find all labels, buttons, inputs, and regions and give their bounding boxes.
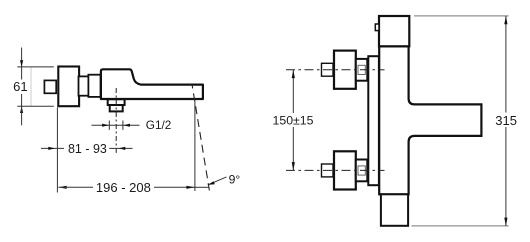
dimension 315 extension lines (gray) xyxy=(412,16,509,226)
dimension 150+-15 line and arrows xyxy=(292,70,295,171)
left view: spout outlet axis 9 degrees (dashed) xyxy=(192,86,209,191)
dimension 61 line and arrows xyxy=(20,48,23,126)
right view: wall union strip xyxy=(368,56,379,185)
right view: cold inlet centerline (dashed) xyxy=(286,169,385,171)
G1/2 label xyxy=(146,118,172,132)
right view: cold pipe stub xyxy=(322,164,334,177)
right view: cold union nut xyxy=(334,151,356,189)
left view: mixer body and spout xyxy=(101,69,203,99)
svg-text:315: 315 xyxy=(495,113,517,128)
left view: hidden wall line xyxy=(30,67,32,106)
right view: hot union nut xyxy=(334,51,356,89)
left view: in-wall connector knob xyxy=(44,80,56,93)
right view: cold escutcheon cylinder xyxy=(356,160,368,182)
svg-text:G1/2: G1/2 xyxy=(146,118,172,132)
right view: hot escutcheon cylinder xyxy=(356,59,368,81)
right view: head tab xyxy=(375,24,379,31)
9 degree leader arrow xyxy=(208,177,227,185)
left view: neck ring A xyxy=(79,76,89,95)
right view: hot hex nut face xyxy=(358,65,365,74)
dimension 315 line and arrows xyxy=(504,16,507,226)
dimension 150+-15 text xyxy=(273,114,314,128)
right view: body column with spout bar xyxy=(379,46,481,194)
dimension 81-93 line and arrows xyxy=(41,147,133,150)
dimension 196-208 text xyxy=(96,180,151,195)
dimension 196-208 line and arrows xyxy=(58,186,208,189)
left view: outlet centerline (dashed) xyxy=(115,88,117,153)
dimension 315 text xyxy=(495,113,517,128)
left view: neck ring B xyxy=(88,75,100,97)
right view: hot inlet centerline (dashed) xyxy=(286,69,385,71)
left view: wall flange xyxy=(58,67,79,107)
extension line from wall face xyxy=(56,108,58,193)
svg-text:9°: 9° xyxy=(229,173,241,187)
dimension 81-93 text xyxy=(68,142,107,156)
extension line from outlet axis xyxy=(194,101,196,192)
right view: thermostat head xyxy=(379,16,409,46)
G1/2 thread ticks xyxy=(109,121,123,130)
left view: aerator upper step xyxy=(108,99,125,105)
9 degree text xyxy=(229,173,241,187)
right view: body internal line xyxy=(379,193,408,195)
svg-text:61: 61 xyxy=(13,79,27,94)
dimension 61 text xyxy=(13,79,27,94)
right view: cold hex nut face xyxy=(358,166,365,175)
svg-text:196 - 208: 196 - 208 xyxy=(96,180,151,195)
left view: aerator lower step xyxy=(110,105,123,111)
right view: bottom block xyxy=(381,194,408,226)
svg-text:81 - 93: 81 - 93 xyxy=(68,142,107,156)
G1/2 leader lines and arrows xyxy=(92,124,140,127)
dimension 61 extension lines xyxy=(17,67,54,106)
right view: hot pipe stub xyxy=(322,63,334,76)
svg-text:150±15: 150±15 xyxy=(273,114,314,128)
